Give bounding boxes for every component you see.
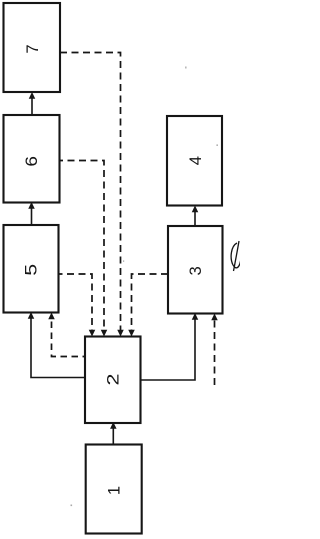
arrowhead into block 5 bottom (dashed) [48,313,55,320]
arrowhead into block 3 bottom (solid) [192,313,199,320]
arrowhead into block 6 bottom [28,202,35,209]
block 5 [4,225,59,313]
block 3 [168,226,223,314]
arrowhead into block 2 top (from 3) [128,330,135,337]
arrowhead into block 4 bottom [192,206,199,213]
arrowhead into block 2 top (from 7) [117,330,124,337]
arrowhead into block 2 bottom [110,422,117,429]
block 7 [4,3,61,92]
svg-text:7: 7 [24,44,42,53]
wire 6 to 7 (solid) [31,97,33,115]
block 6 [4,115,60,203]
dashed wire 7 to 2 (right then down) [60,53,121,332]
dashed wire 6 to 2 (right then down) [60,161,105,332]
wire 3 to 4 (solid) [194,210,196,226]
speck inside block 4 [217,145,218,146]
block 1 [86,445,142,534]
wire 1 to 2 (solid) [112,427,114,445]
arrowhead into block 2 top (from 5) [89,330,96,337]
speck near block 1 [71,505,73,507]
arrowhead into block 2 top (from 6) [101,330,108,337]
arrowhead into block 3 bottom (dashed) [211,314,218,321]
svg-text:6: 6 [22,156,41,167]
dashed stub wire into 3 bottom [214,318,216,385]
svg-text:1: 1 [105,486,123,495]
dashed wire 2 to 5 (left then up) [52,317,86,357]
wire 2 to 3 (solid, right then up) [141,318,196,380]
svg-text:5: 5 [23,264,41,276]
wire 2 to 5 (solid, left then up) [31,317,85,378]
dashed wire 3 to 2 (left then down) [132,274,169,331]
svg-text:2: 2 [105,374,123,386]
block 4 [167,116,222,206]
block 2 [85,337,141,424]
wire 5 to 6 (solid) [31,207,33,225]
speck near dashed lines [123,261,124,262]
handwritten squiggle annotation right of block 3 [231,243,241,268]
speck near top right [185,67,187,69]
svg-text:4: 4 [187,156,205,165]
arrowhead into block 7 bottom [29,92,36,99]
dashed wire 5 to 2 (right then down) [59,274,93,331]
arrowhead into block 5 bottom (solid) [28,312,35,319]
svg-text:3: 3 [187,266,205,275]
